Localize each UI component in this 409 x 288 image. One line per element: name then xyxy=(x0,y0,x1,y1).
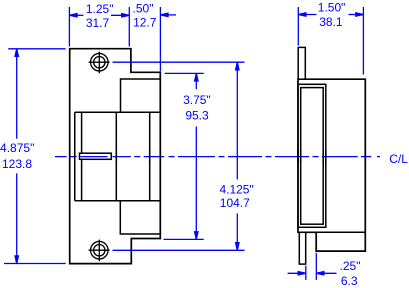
front view cavity top edge xyxy=(75,111,161,113)
dimension .50in extension line xyxy=(159,7,161,71)
dimension 1.50in xyxy=(298,7,363,75)
front view cavity mid wall xyxy=(115,112,117,201)
side view body outline xyxy=(298,79,365,251)
screw hole bottom xyxy=(89,240,110,262)
dimension 1.25in extension line right xyxy=(128,7,130,47)
svg-text:12.7: 12.7 xyxy=(133,15,157,29)
svg-text:1.25": 1.25" xyxy=(86,2,114,16)
svg-text:104.7: 104.7 xyxy=(220,196,250,210)
side view bottom lip tab xyxy=(299,232,305,264)
front view faceplate outline xyxy=(70,49,161,264)
side view cavity inner rect xyxy=(301,88,324,225)
dimension .25in xyxy=(288,253,337,280)
keeper xyxy=(80,153,112,159)
svg-text:.25": .25" xyxy=(340,259,361,273)
dimension .50in line with outside arrow xyxy=(160,14,176,16)
svg-text:6.3: 6.3 xyxy=(341,274,358,288)
dimension 4.875in xyxy=(4,49,66,264)
svg-text:.50": .50" xyxy=(133,2,154,16)
svg-text:31.7: 31.7 xyxy=(86,16,110,30)
dimension 3.75in xyxy=(164,73,204,239)
svg-text:C/L: C/L xyxy=(389,152,408,166)
front view lip box top xyxy=(75,79,161,234)
svg-text:123.8: 123.8 xyxy=(2,157,32,171)
svg-text:4.125": 4.125" xyxy=(219,182,253,196)
front view lip box bottom xyxy=(120,201,160,234)
front view cavity bottom edge xyxy=(75,200,161,202)
centerline C/L dash-dot xyxy=(55,156,380,158)
dimension 1.25in line xyxy=(69,14,83,16)
svg-text:1.50": 1.50" xyxy=(318,0,346,14)
front view cavity left wall xyxy=(74,112,76,201)
svg-text:95.3: 95.3 xyxy=(185,109,209,123)
screw hole top xyxy=(89,52,110,74)
front view cavity right wall xyxy=(149,112,151,201)
svg-text:4.875": 4.875" xyxy=(0,141,34,155)
side view body bottom internal line xyxy=(316,231,365,233)
svg-text:3.75": 3.75" xyxy=(183,93,211,107)
side view cavity outer rect xyxy=(298,84,326,227)
side view top lip tab xyxy=(298,47,305,79)
dimension 1.25in extension line left xyxy=(69,7,176,71)
front view cavity inner-left wall xyxy=(81,112,83,201)
dimension 4.125in xyxy=(113,62,245,250)
wire overdraw: black verticals re-drawn over centerline crossings xyxy=(70,150,366,163)
svg-text:38.1: 38.1 xyxy=(319,15,343,29)
